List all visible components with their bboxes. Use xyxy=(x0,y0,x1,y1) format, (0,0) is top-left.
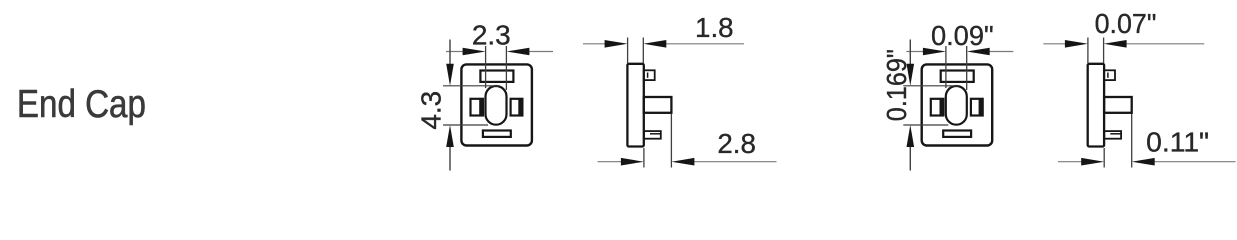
side view (mm) top tab xyxy=(644,70,655,80)
width dimension line left segment xyxy=(446,51,481,53)
side view (inch) top tab xyxy=(1104,70,1115,80)
front view (mm) body outline xyxy=(461,64,532,145)
plate thickness dimension line right segment xyxy=(648,43,744,45)
plate thickness extension line left xyxy=(1087,38,1089,64)
front view (inch) body outline xyxy=(922,64,993,145)
svg-text:0.169": 0.169" xyxy=(881,49,913,121)
depth dimension line right segment xyxy=(1136,161,1235,163)
side view (mm) base plate xyxy=(627,64,643,147)
side view (mm) middle protrusion xyxy=(644,97,672,113)
svg-text:2.3: 2.3 xyxy=(472,20,511,51)
plate thickness dimension line right segment xyxy=(1108,43,1204,45)
svg-text:1.8: 1.8 xyxy=(695,12,734,43)
height dimension extension line top xyxy=(443,85,499,87)
depth dimension extension line right xyxy=(1131,114,1133,168)
side view (inch) base plate xyxy=(1088,64,1104,147)
front view (mm) center oval hole xyxy=(486,86,507,125)
height dimension line top segment xyxy=(449,40,451,71)
plate thickness left arrow xyxy=(1065,40,1088,48)
width dimension extension line right xyxy=(966,46,968,90)
height dimension line top segment xyxy=(909,40,911,71)
width dimension left arrow xyxy=(463,48,486,56)
height dimension extension line bottom xyxy=(903,124,948,126)
width dimension extension line right xyxy=(505,46,507,90)
plate thickness right arrow xyxy=(1104,40,1127,48)
svg-text:4.3: 4.3 xyxy=(416,91,447,130)
width dimension line right segment xyxy=(971,51,1013,53)
plate thickness dimension line left segment xyxy=(1043,43,1083,45)
svg-text:End Cap: End Cap xyxy=(17,81,146,125)
front view (inch) bottom slot xyxy=(943,131,971,137)
width dimension extension line left xyxy=(945,46,947,88)
height dimension line bottom segment xyxy=(449,141,451,171)
depth dimension line right segment xyxy=(676,161,777,163)
depth dimension extension line left xyxy=(1103,148,1105,168)
depth dimension extension line right xyxy=(670,114,672,168)
plate thickness extension line right xyxy=(642,38,644,64)
depth dimension left arrow xyxy=(1081,158,1104,166)
side view (inch) bottom tab xyxy=(1104,131,1121,139)
width dimension right arrow xyxy=(506,48,529,56)
front view (inch) top slot xyxy=(941,71,974,82)
front view (mm) right tab xyxy=(511,99,523,116)
width dimension line left segment xyxy=(906,51,941,53)
front view (inch) center oval hole xyxy=(946,86,967,125)
front view (inch) right tab xyxy=(971,99,983,116)
depth dimension left arrow xyxy=(621,158,644,166)
width dimension line right segment xyxy=(511,51,553,53)
side view (mm) bottom tab xyxy=(644,131,661,139)
height dimension bottom arrow xyxy=(446,125,454,147)
plate thickness dimension line left segment xyxy=(583,43,623,45)
svg-text:0.09": 0.09" xyxy=(931,20,994,51)
height dimension bottom arrow xyxy=(907,125,915,147)
height dimension top arrow xyxy=(907,64,915,86)
height dimension line bottom segment xyxy=(909,141,911,171)
front view (inch) left tab xyxy=(931,99,944,116)
depth dimension line left segment xyxy=(598,161,639,163)
svg-text:0.07": 0.07" xyxy=(1095,8,1157,40)
side view (inch) middle protrusion xyxy=(1104,97,1132,113)
depth dimension line left segment xyxy=(1058,161,1099,163)
plate thickness left arrow xyxy=(605,40,628,48)
svg-text:2.8: 2.8 xyxy=(717,128,756,159)
plate thickness extension line right xyxy=(1103,38,1105,64)
depth dimension extension line left xyxy=(643,148,645,168)
height dimension extension line top xyxy=(903,85,959,87)
depth dimension right arrow xyxy=(1132,158,1155,166)
height dimension top arrow xyxy=(446,64,454,86)
depth dimension right arrow xyxy=(671,158,694,166)
plate thickness right arrow xyxy=(643,40,666,48)
svg-text:0.11": 0.11" xyxy=(1146,127,1209,158)
width dimension right arrow xyxy=(967,48,990,56)
width dimension extension line left xyxy=(485,46,487,88)
plate thickness extension line left xyxy=(627,38,629,64)
width dimension left arrow xyxy=(923,48,946,56)
height dimension extension line bottom xyxy=(443,124,488,126)
front view (mm) bottom slot xyxy=(483,131,511,137)
front view (mm) left tab xyxy=(471,99,484,116)
front view (mm) top slot xyxy=(480,71,513,82)
